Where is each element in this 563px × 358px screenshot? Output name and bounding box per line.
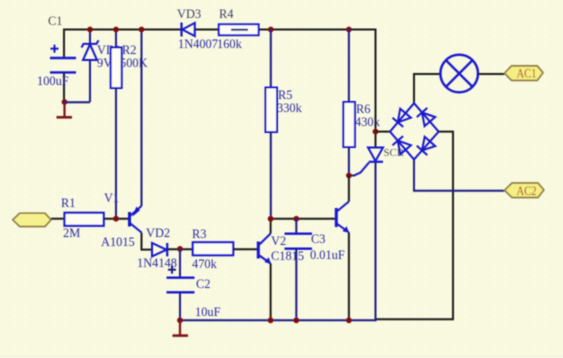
resistor R5 [266, 30, 303, 219]
ground bottom [173, 320, 189, 335]
wire SCR gate to R6 node [349, 175, 355, 177]
svg-text:R5: R5 [278, 88, 292, 102]
node R6 bottom / gate [346, 173, 352, 179]
wire V1 collector to VD2 [142, 233, 153, 250]
wire bridge right vertex to bottom rail [376, 132, 454, 320]
node R2 top [113, 27, 119, 33]
node bottom C2 [177, 317, 183, 323]
svg-text:V1: V1 [104, 191, 119, 205]
node SCR anode / bridge left [373, 129, 379, 135]
wire V2 emitter down [270, 264, 272, 321]
transistor V1 [101, 191, 142, 249]
svg-text:430k: 430k [355, 115, 381, 129]
node VD1 top [87, 27, 93, 33]
bridge diode top-right [417, 108, 435, 126]
wire V4 emitter down [348, 233, 350, 321]
svg-text:R1: R1 [61, 196, 75, 210]
node C3 top [293, 216, 299, 222]
node R5 top [268, 27, 274, 33]
svg-text:C1: C1 [48, 14, 62, 28]
ground [57, 102, 73, 117]
wire SCR cathode down [375, 162, 377, 321]
wire input to R1 [51, 218, 65, 220]
wire SCR anode from rail [375, 29, 377, 148]
wire VD2 to R3 [167, 248, 193, 250]
SCR [354, 147, 405, 176]
node R6 top [346, 27, 352, 33]
svg-text:1N4148: 1N4148 [137, 256, 177, 270]
svg-text:C2: C2 [196, 277, 210, 291]
bridge diode bottom-left [393, 136, 411, 154]
svg-text:100uF: 100uF [37, 74, 69, 88]
wire ground to VD1 [65, 101, 91, 103]
node R2 bottom / base [113, 216, 119, 222]
wire R1 to V1 base [104, 218, 129, 220]
svg-text:500K: 500K [120, 56, 148, 70]
bridge frame [390, 103, 439, 159]
transistor V2 [258, 234, 304, 264]
svg-text:V2: V2 [271, 234, 286, 248]
node bottom C3 [293, 317, 299, 323]
diode VD3 [177, 7, 218, 51]
node bottom V2 [268, 317, 274, 323]
capacitor C1 [37, 14, 76, 102]
port AC2 [505, 183, 544, 198]
svg-text:C1815: C1815 [271, 249, 304, 263]
svg-text:AC2: AC2 [517, 183, 537, 198]
wire bridge left vertex [376, 131, 391, 133]
wire bottom rail [180, 319, 376, 321]
svg-text:330k: 330k [277, 101, 303, 115]
wire V2 collector up [270, 219, 272, 234]
port input [13, 213, 51, 226]
resistor R3 [192, 227, 233, 271]
svg-text:R4: R4 [219, 7, 233, 21]
svg-text:AC1: AC1 [517, 66, 537, 81]
diode VD2 [137, 226, 177, 270]
svg-text:R6: R6 [356, 102, 370, 116]
wire V1 emitter up to rail [141, 30, 143, 207]
lamp [440, 55, 478, 93]
capacitor C2 [167, 249, 221, 320]
capacitor C3 [285, 219, 345, 320]
wire collector node to V4 base [271, 218, 336, 220]
svg-text:A1015: A1015 [101, 235, 135, 249]
wire lamp left / bridge top [414, 74, 440, 103]
svg-text:0.01uF: 0.01uF [310, 248, 345, 262]
node C2 top [177, 246, 183, 252]
svg-text:VD2: VD2 [146, 226, 170, 240]
bridge diode bottom-right [417, 137, 435, 155]
resistor R6 [343, 30, 380, 176]
svg-text:C3: C3 [311, 232, 325, 246]
svg-text:1N4007: 1N4007 [178, 37, 218, 51]
node V2 collector [268, 216, 274, 222]
svg-text:470k: 470k [192, 257, 218, 271]
resistor R1 [61, 196, 104, 240]
svg-text:10uF: 10uF [195, 305, 221, 319]
resistor R4 [217, 7, 259, 51]
svg-text:R2: R2 [122, 43, 136, 57]
svg-text:2M: 2M [63, 226, 80, 240]
svg-text:VD3: VD3 [177, 7, 201, 21]
node V1 emitter rail [139, 27, 145, 33]
node bottom V4 [346, 317, 352, 323]
wire lamp to AC1 [478, 73, 505, 75]
svg-text:R3: R3 [192, 227, 206, 241]
bridge diode top-left [393, 109, 411, 127]
node C1/VD1 ground junction [62, 99, 68, 105]
wire R3 to V2 base [233, 248, 257, 250]
wire top rail [64, 29, 376, 31]
transistor V4 [336, 202, 349, 233]
wire V4 collector to gate node [348, 176, 350, 202]
resistor R2 [111, 30, 148, 219]
zener VD1 [82, 30, 122, 103]
wire bridge bottom to AC2 [414, 160, 505, 191]
port AC1 [505, 66, 544, 81]
svg-text:160k: 160k [217, 37, 243, 51]
